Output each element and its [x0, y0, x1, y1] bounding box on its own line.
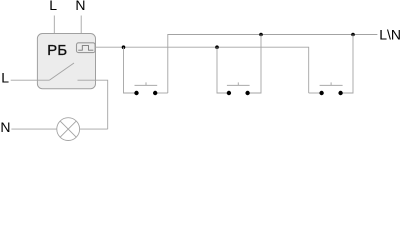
svg-text:L: L: [1, 70, 9, 86]
wire lamp to switch output branch: [80, 128, 108, 130]
svg-text:L: L: [49, 0, 57, 13]
svg-text:N: N: [75, 0, 85, 13]
wire switch output to lamp branch: [78, 80, 108, 129]
pushbutton SB3: [319, 82, 342, 95]
pushbutton SB2: [227, 82, 250, 95]
wire SB2 left drop: [217, 47, 227, 93]
svg-text:L\N: L\N: [379, 26, 400, 42]
pulse input icon box: [77, 43, 96, 53]
wire upper bus (L\N line): [168, 35, 378, 94]
wire SB1 right drop: [157, 92, 168, 94]
switch contact (diagonal) inside relay: [49, 63, 74, 80]
wire SB3 right drop: [343, 35, 353, 94]
wire SB3 left stub: [309, 92, 320, 94]
wire L top drop to relay: [53, 16, 55, 34]
wire N top drop to relay: [80, 16, 82, 34]
junction dot lower bus to SB1: [122, 45, 126, 49]
pulse waveform symbol: [78, 46, 93, 51]
wire lower bus (pulse line): [96, 47, 309, 93]
svg-text:N: N: [0, 119, 10, 135]
junction dot lower bus to SB2: [215, 45, 219, 49]
svg-text:РБ: РБ: [47, 43, 67, 59]
wire L left into relay: [11, 79, 50, 81]
pushbutton SB1: [134, 82, 157, 95]
wire SB2 right drop: [250, 35, 261, 94]
lamp EL1 (circle with cross): [57, 118, 80, 141]
wire N to lamp: [11, 128, 56, 130]
junction dot upper bus to SB3: [351, 33, 355, 37]
wire SB1 left drop: [124, 47, 135, 93]
relay box U1: [37, 34, 95, 89]
junction dot upper bus to SB2: [259, 33, 263, 37]
